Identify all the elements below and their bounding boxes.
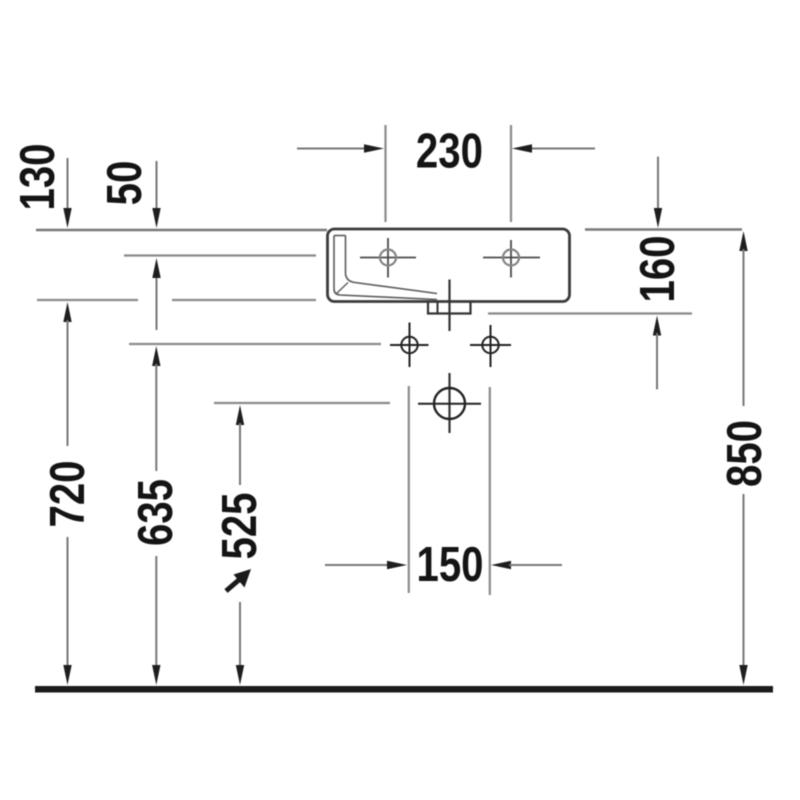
wall line right segment xyxy=(585,228,742,231)
svg-text:150: 150 xyxy=(416,537,483,592)
dim 635 lower line + arrow down at floor xyxy=(152,556,160,685)
dim 50 arrow down xyxy=(152,161,160,228)
svg-text:720: 720 xyxy=(40,460,95,527)
lower holes level line xyxy=(129,343,381,345)
dim 230 left arrow xyxy=(297,144,384,152)
drain outlet box inner wall xyxy=(437,302,439,314)
dim 150 right arrow xyxy=(491,561,562,569)
dim 150 extension line right xyxy=(489,387,491,595)
basin bottom level line seg2 xyxy=(172,299,316,301)
dim 160 bottom arrow up xyxy=(653,316,661,390)
svg-text:850: 850 xyxy=(717,420,772,487)
svg-text:50: 50 xyxy=(97,161,152,206)
svg-text:525: 525 xyxy=(212,492,267,559)
basin section profile outer contour xyxy=(334,236,437,300)
drain center line lower segment xyxy=(448,373,450,433)
floor line xyxy=(35,686,773,693)
right 160 bottom ref line xyxy=(488,312,692,314)
washbasin body outline xyxy=(328,229,570,302)
dim 150 extension line left xyxy=(408,386,410,593)
dim 850 lower line + arrow down at floor xyxy=(739,494,747,685)
dim 160 top arrow down xyxy=(654,157,662,228)
basin section profile inner contour xyxy=(346,236,438,294)
faucet hole left crosshair xyxy=(360,238,416,278)
dim 850 arrow up at wall line xyxy=(739,231,747,406)
dim 525 lower line + arrow down at floor xyxy=(236,602,244,685)
outlet direction arrow (north-east) xyxy=(226,569,251,591)
dim 130 arrow down xyxy=(63,158,71,228)
dim 230 extension line left xyxy=(384,125,386,222)
lower fixing hole left crosshair xyxy=(390,323,429,368)
drain outlet box xyxy=(428,302,471,314)
drain center line upper segment xyxy=(448,280,450,332)
basin section rim top cap xyxy=(334,235,346,237)
svg-text:130: 130 xyxy=(10,143,65,210)
dim 230 extension line right xyxy=(510,125,512,222)
wall line left segment xyxy=(36,229,327,232)
dim 635 arrow up at lower holes line xyxy=(152,346,160,471)
dim 720 lower line + arrow down at floor xyxy=(63,537,71,685)
svg-text:635: 635 xyxy=(128,479,183,546)
dim 720 / 130 shared arrow up at basin bottom line xyxy=(63,302,71,446)
lower fixing hole right crosshair xyxy=(470,325,511,367)
faucet hole level line xyxy=(124,254,316,256)
drain level line xyxy=(214,402,390,404)
basin wall/floor junction line xyxy=(337,283,349,294)
dim 50 arrow up at hole line xyxy=(152,258,160,330)
dim 525 arrow up at drain line xyxy=(236,405,244,485)
dim 230 right arrow xyxy=(512,144,595,152)
basin bottom level line seg1 xyxy=(37,299,138,301)
svg-text:160: 160 xyxy=(630,235,685,302)
faucet hole right crosshair xyxy=(483,240,540,278)
svg-text:230: 230 xyxy=(416,124,483,179)
dim 150 left arrow xyxy=(325,561,407,569)
drain hole circle xyxy=(418,388,481,419)
